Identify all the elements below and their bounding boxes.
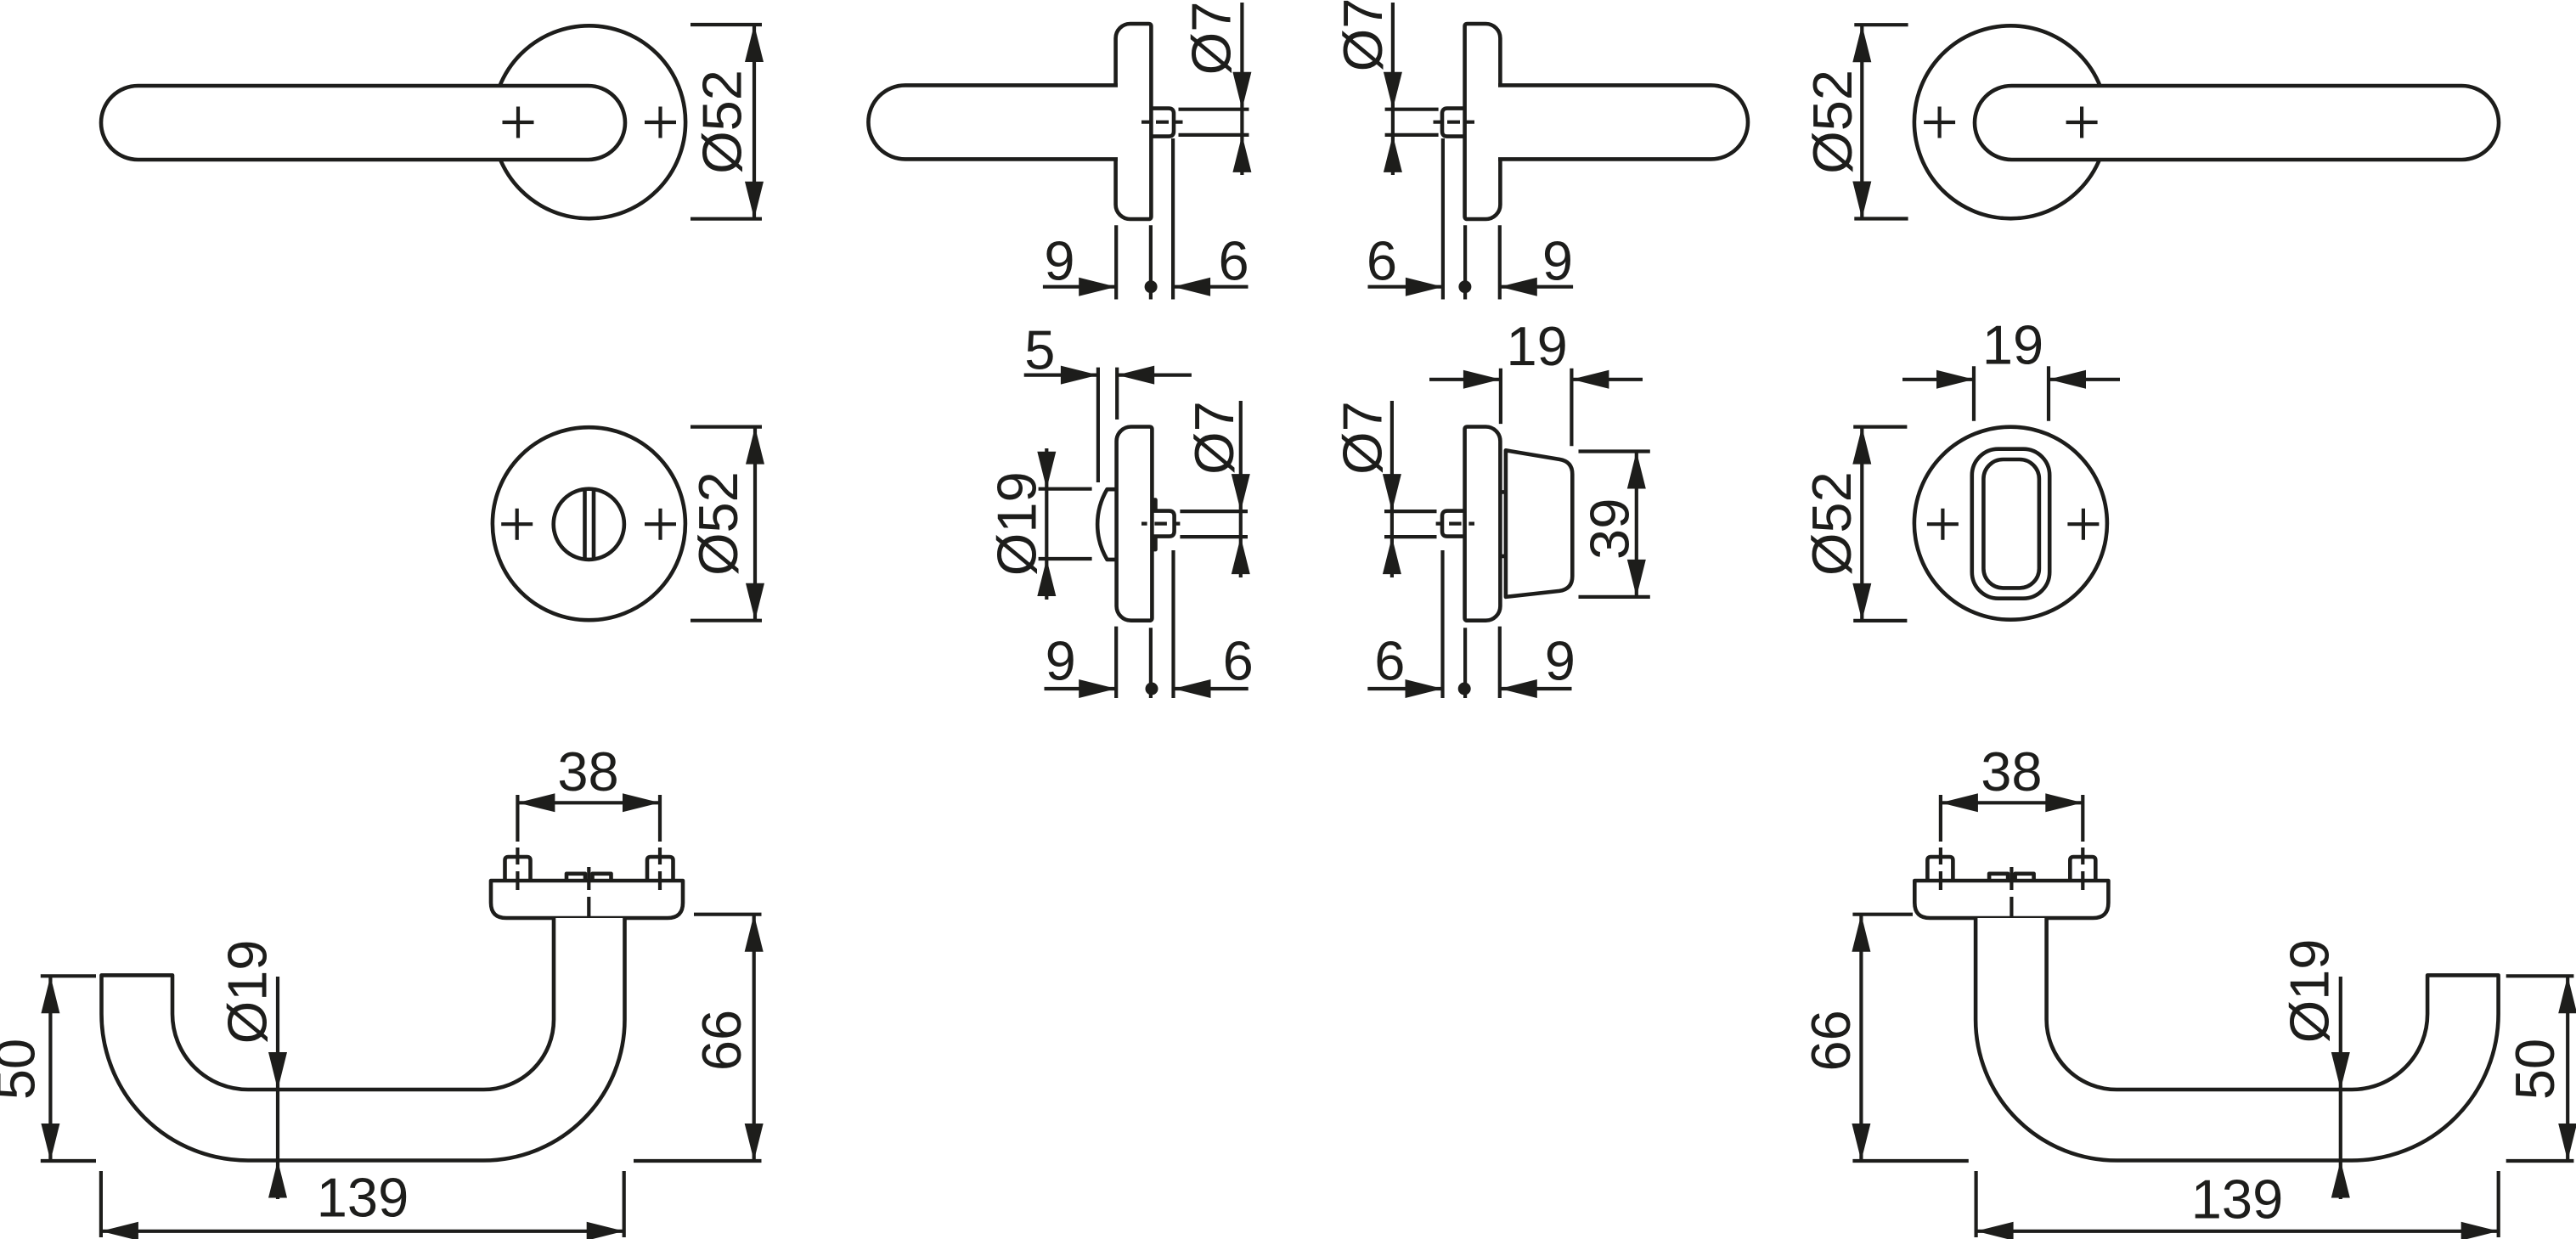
dim 139 line left handle bbox=[101, 1230, 624, 1233]
lever bar front view right bbox=[1975, 86, 2499, 160]
dim 5 lines bbox=[1024, 374, 1192, 377]
dim Ø7 line WC unit bbox=[1239, 401, 1243, 577]
dim 139 ext lines right handle bbox=[1976, 1171, 2499, 1237]
svg-text:Ø19: Ø19 bbox=[985, 471, 1047, 576]
spindle hole tab right bbox=[593, 874, 612, 881]
svg-text:Ø7: Ø7 bbox=[1332, 0, 1394, 71]
dim 139 ext lines left handle bbox=[101, 1171, 624, 1237]
svg-text:19: 19 bbox=[1982, 314, 2043, 376]
svg-text:Ø52: Ø52 bbox=[687, 471, 749, 576]
dashed centre line WC unit bbox=[1141, 521, 1180, 525]
dashed centre line plate left bbox=[587, 867, 590, 941]
fixing post left bbox=[1927, 857, 1953, 881]
thumbturn collar ticks bbox=[1500, 492, 1506, 556]
svg-text:39: 39 bbox=[1578, 498, 1640, 560]
spindle shaft lines left unit bbox=[1179, 110, 1249, 135]
svg-text:5: 5 bbox=[1024, 318, 1055, 380]
thumbturn rosette circle bbox=[1914, 427, 2107, 620]
dim 139 line right handle bbox=[1976, 1230, 2499, 1233]
dim 19 ext lines thumbturn bbox=[1974, 366, 2049, 421]
dim 19 lines knob bbox=[1429, 378, 1643, 381]
spindle hole tab left bbox=[566, 874, 585, 881]
junction dot WC unit bbox=[1146, 683, 1158, 696]
rosette plate right bbox=[1914, 881, 2108, 918]
dim Ø52 ticks thumbturn bbox=[1853, 427, 1907, 621]
thumbturn inner bbox=[1983, 459, 2039, 588]
thumbturn outer bbox=[1972, 449, 2049, 599]
svg-text:66: 66 bbox=[1800, 1010, 1862, 1071]
svg-text:9: 9 bbox=[1044, 230, 1074, 292]
svg-text:50: 50 bbox=[0, 1039, 47, 1100]
dim Ø7 line left unit bbox=[1240, 3, 1243, 175]
lever grip side view left unit bbox=[868, 85, 1118, 159]
svg-text:66: 66 bbox=[691, 1010, 753, 1071]
dim 19 lines thumbturn bbox=[1902, 378, 2120, 381]
lever bar front view left bbox=[101, 86, 625, 160]
WC rosette circle bbox=[493, 427, 685, 620]
dashed centre line thumbturn unit bbox=[1436, 521, 1474, 525]
dim Ø52 line top-left view bbox=[753, 25, 756, 219]
dim 9/6 lines WC unit bbox=[1045, 687, 1249, 690]
WC slot lines bbox=[585, 491, 595, 559]
dim Ø19 line left handle bbox=[276, 977, 279, 1199]
rosette plate left bbox=[491, 881, 683, 918]
dim Ø52 line top-right view bbox=[1860, 25, 1863, 218]
fixing post left bbox=[505, 857, 531, 881]
extension lines 9/6 left unit bbox=[1116, 138, 1173, 300]
svg-text:Ø7: Ø7 bbox=[1181, 2, 1243, 76]
WC spindle tab top bbox=[1151, 500, 1156, 511]
svg-text:9: 9 bbox=[1545, 630, 1575, 692]
dim 50 line left handle bbox=[48, 976, 52, 1161]
dashed centre line right unit bbox=[1434, 121, 1475, 124]
WC spindle nut bbox=[1151, 511, 1175, 537]
svg-text:139: 139 bbox=[2191, 1169, 2283, 1231]
WC release button bump bbox=[1097, 489, 1117, 560]
dim 19 ext lines knob bbox=[1501, 369, 1572, 447]
dim Ø19 ticks WC unit bbox=[1039, 489, 1092, 559]
dashed centre line left unit bbox=[1141, 121, 1183, 124]
dim 38 line left handle bbox=[517, 801, 660, 804]
svg-text:Ø52: Ø52 bbox=[691, 70, 753, 174]
dim 50 line right handle bbox=[2566, 976, 2569, 1161]
dim Ø52 ticks WC bbox=[691, 427, 762, 621]
spindle shaft lines WC unit bbox=[1180, 511, 1248, 537]
svg-text:Ø52: Ø52 bbox=[1801, 471, 1863, 576]
spindle nut left unit bbox=[1150, 109, 1174, 137]
dim 38 line right handle bbox=[1941, 801, 2083, 804]
dim 38 ext lines right handle bbox=[1941, 795, 2083, 842]
dim Ø7 line thumbturn unit bbox=[1390, 401, 1394, 577]
thumbturn knob side view bbox=[1506, 450, 1572, 597]
extension lines 6/9 thumbturn unit bbox=[1443, 550, 1500, 698]
spindle nut right unit bbox=[1442, 109, 1466, 137]
lever handle body left bbox=[102, 918, 625, 1161]
svg-text:6: 6 bbox=[1223, 630, 1254, 692]
svg-text:6: 6 bbox=[1374, 630, 1405, 692]
screw cross right bbox=[2066, 107, 2098, 138]
extension lines 6/9 right unit bbox=[1443, 138, 1500, 300]
screw cross left bbox=[1924, 107, 1955, 138]
dim Ø52 line WC bbox=[753, 427, 757, 621]
lever grip side view right unit bbox=[1498, 85, 1748, 159]
spindle shaft lines thumbturn unit bbox=[1384, 511, 1437, 537]
dim 66 ticks left handle bbox=[634, 915, 762, 1161]
junction dot right unit bbox=[1458, 280, 1471, 293]
WC spindle tab bottom bbox=[1151, 537, 1156, 550]
rosette circle right bbox=[1914, 25, 2107, 218]
spindle hole tab right bbox=[2015, 874, 2034, 881]
dim 39 ticks bbox=[1579, 452, 1650, 597]
rosette side view left unit bbox=[1116, 24, 1152, 219]
svg-text:38: 38 bbox=[557, 741, 618, 803]
WC rosette side view bbox=[1117, 427, 1153, 621]
screw cross left bbox=[503, 107, 534, 138]
thumbturn rosette side view bbox=[1465, 427, 1501, 621]
dim 6/9 lines right unit bbox=[1368, 285, 1574, 289]
svg-text:9: 9 bbox=[1542, 230, 1573, 292]
rosette circle left bbox=[493, 25, 685, 218]
rosette side view right unit bbox=[1465, 24, 1501, 219]
WC inner hub circle bbox=[554, 489, 624, 560]
dim Ø19 line right handle bbox=[2339, 977, 2342, 1199]
lever handle body right bbox=[1976, 918, 2499, 1161]
screw cross right bbox=[2067, 509, 2099, 540]
svg-text:Ø7: Ø7 bbox=[1332, 401, 1394, 475]
dim 5 ext lines bbox=[1098, 368, 1117, 482]
dim 39 line bbox=[1635, 452, 1638, 597]
screw cross left bbox=[1927, 509, 1959, 540]
fixing post right bbox=[2070, 857, 2095, 881]
svg-text:Ø19: Ø19 bbox=[2279, 939, 2341, 1044]
dim 50 ticks left handle bbox=[41, 976, 96, 1161]
dim 6/9 lines thumbturn unit bbox=[1367, 687, 1571, 690]
dim 66 ticks right handle bbox=[1852, 915, 1968, 1161]
svg-text:139: 139 bbox=[317, 1167, 409, 1229]
dim 9/6 lines left unit bbox=[1043, 285, 1249, 289]
screw cross right bbox=[645, 107, 676, 138]
svg-text:Ø52: Ø52 bbox=[1801, 70, 1863, 174]
dim Ø52 ticks top-right view bbox=[1854, 25, 1908, 218]
dim Ø52 ticks top-left view bbox=[691, 25, 762, 219]
dim 38 ext lines left handle bbox=[517, 795, 660, 842]
dim 50 ticks right handle bbox=[2506, 976, 2574, 1161]
junction dot left unit bbox=[1145, 280, 1158, 293]
dim Ø19 line WC unit bbox=[1045, 448, 1048, 600]
dashed centre line plate right bbox=[2010, 867, 2013, 941]
svg-text:38: 38 bbox=[1981, 741, 2042, 803]
dim 66 line right handle bbox=[1859, 915, 1863, 1161]
dim Ø7 line right unit bbox=[1391, 3, 1395, 175]
junction dot thumbturn unit bbox=[1458, 683, 1471, 696]
extension lines 9/6 WC unit bbox=[1116, 550, 1173, 698]
spindle nut thumbturn unit bbox=[1442, 511, 1466, 537]
fixing post right bbox=[647, 857, 674, 881]
dim Ø52 line thumbturn bbox=[1860, 427, 1863, 621]
svg-text:9: 9 bbox=[1046, 630, 1076, 692]
svg-text:Ø19: Ø19 bbox=[217, 940, 279, 1045]
screw cross right bbox=[645, 509, 676, 540]
screw cross left bbox=[501, 509, 533, 540]
spindle shaft lines right unit bbox=[1385, 110, 1439, 135]
dim 66 line left handle bbox=[753, 915, 756, 1161]
svg-text:19: 19 bbox=[1507, 315, 1568, 377]
svg-text:Ø7: Ø7 bbox=[1183, 401, 1245, 475]
spindle hole tab left bbox=[1989, 874, 2008, 881]
svg-text:6: 6 bbox=[1367, 230, 1397, 292]
svg-text:6: 6 bbox=[1219, 230, 1249, 292]
svg-text:50: 50 bbox=[2504, 1039, 2566, 1100]
